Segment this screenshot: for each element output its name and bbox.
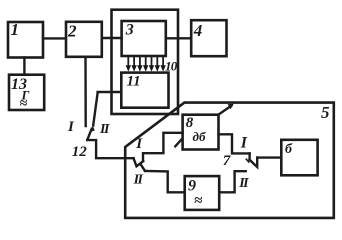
wire 2-3 bbox=[102, 37, 122, 39]
svg-text:2: 2 bbox=[67, 21, 77, 40]
svg-text:б: б bbox=[285, 142, 293, 157]
block 11 bbox=[121, 73, 168, 108]
switch 7 common wire to block 6 bbox=[257, 156, 281, 158]
variability arrow through block 8 bbox=[175, 139, 182, 147]
block 13 bbox=[9, 75, 44, 110]
svg-text:≈: ≈ bbox=[194, 193, 203, 209]
svg-text:≈: ≈ bbox=[20, 97, 28, 112]
block 9 bbox=[185, 176, 220, 210]
block 1 bbox=[8, 22, 43, 58]
svg-text:12: 12 bbox=[72, 144, 88, 160]
block 2 bbox=[66, 22, 102, 57]
switch 7 arrow barb bbox=[246, 159, 249, 162]
block 9 output wire up to switch 7 lower contact bbox=[219, 171, 246, 192]
svg-text:дб: дб bbox=[193, 129, 206, 144]
wire 1-2 bbox=[43, 37, 65, 39]
svg-text:3: 3 bbox=[125, 22, 134, 39]
svg-text:I: I bbox=[135, 136, 143, 152]
svg-text:II: II bbox=[133, 173, 144, 188]
switch 12 common wire into box 5 bbox=[87, 140, 133, 158]
svg-text:II: II bbox=[99, 122, 110, 137]
svg-text:1: 1 bbox=[11, 20, 20, 39]
block 3 bbox=[122, 21, 166, 56]
left selector lower wire to block 9 bbox=[145, 171, 185, 192]
svg-text:I: I bbox=[67, 119, 75, 135]
box 5 outline with beveled corner bbox=[125, 103, 334, 218]
switch 7 upper contact hook bbox=[248, 153, 250, 159]
switch 12 arm with arrowhead bbox=[87, 129, 91, 140]
outer box around 3 and 11 bbox=[112, 10, 179, 114]
svg-text:I: I bbox=[240, 134, 248, 151]
bus arrows 3 to 11, label 10 bbox=[128, 57, 163, 67]
left selector arm inside box 5 bbox=[134, 158, 144, 166]
wire 11 left to switch 12 contact II bbox=[93, 92, 121, 126]
wire 1-13 bbox=[23, 58, 25, 75]
block 8 output wire down to switch 7 bbox=[219, 134, 250, 153]
block 8 bbox=[183, 115, 219, 150]
switch 7 arm bbox=[250, 158, 258, 167]
svg-text:II: II bbox=[238, 176, 249, 191]
svg-text:7: 7 bbox=[223, 153, 231, 169]
svg-text:5: 5 bbox=[321, 103, 330, 122]
svg-text:4: 4 bbox=[193, 21, 203, 40]
wire 2 down to switch 12 contact I bbox=[84, 57, 87, 126]
block 4 bbox=[191, 20, 226, 56]
left selector lower contact tick bbox=[141, 165, 145, 171]
left selector upper contact and wire to block 8 bbox=[143, 133, 183, 161]
wire 3-4 bbox=[166, 37, 191, 39]
svg-text:11: 11 bbox=[127, 73, 141, 89]
svg-text:10: 10 bbox=[165, 59, 178, 74]
block 6 bbox=[281, 140, 317, 176]
